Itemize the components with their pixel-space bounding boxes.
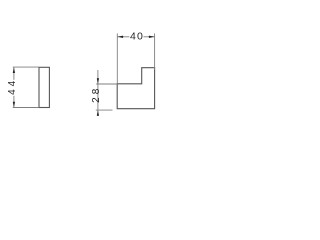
dim 44 dimension line lower segment [13, 96, 15, 108]
dim 44 arrowhead up [13, 67, 15, 73]
front view rectangle (left figure) [39, 67, 49, 107]
dim 40 arrowhead right [149, 36, 155, 38]
svg-text:28: 28 [91, 86, 102, 103]
dim 28 arrowhead down (above top extension) [97, 78, 99, 84]
dim 28 top extension line [96, 83, 117, 85]
dim 40 right extension line [154, 33, 156, 70]
dim 44 dimension line upper segment [13, 67, 15, 80]
svg-text:44: 44 [7, 78, 18, 95]
dim 44 arrowhead down [13, 102, 15, 108]
dim 44 bottom extension line [13, 107, 39, 109]
dim 44 top extension line [13, 66, 39, 68]
dim 28 bottom extension line [96, 109, 113, 111]
side view step profile (right figure) [117, 68, 154, 109]
dim 40 dimension line right segment [144, 36, 155, 38]
dim 40 dimension line left segment [117, 36, 129, 38]
dim 40 arrowhead left [118, 36, 124, 38]
dim 28 arrowhead up (below bottom extension) [97, 110, 99, 116]
svg-text:40: 40 [130, 31, 144, 43]
dim 28 dimension line vertical [97, 70, 99, 116]
dim 40 left extension line [116, 33, 118, 83]
